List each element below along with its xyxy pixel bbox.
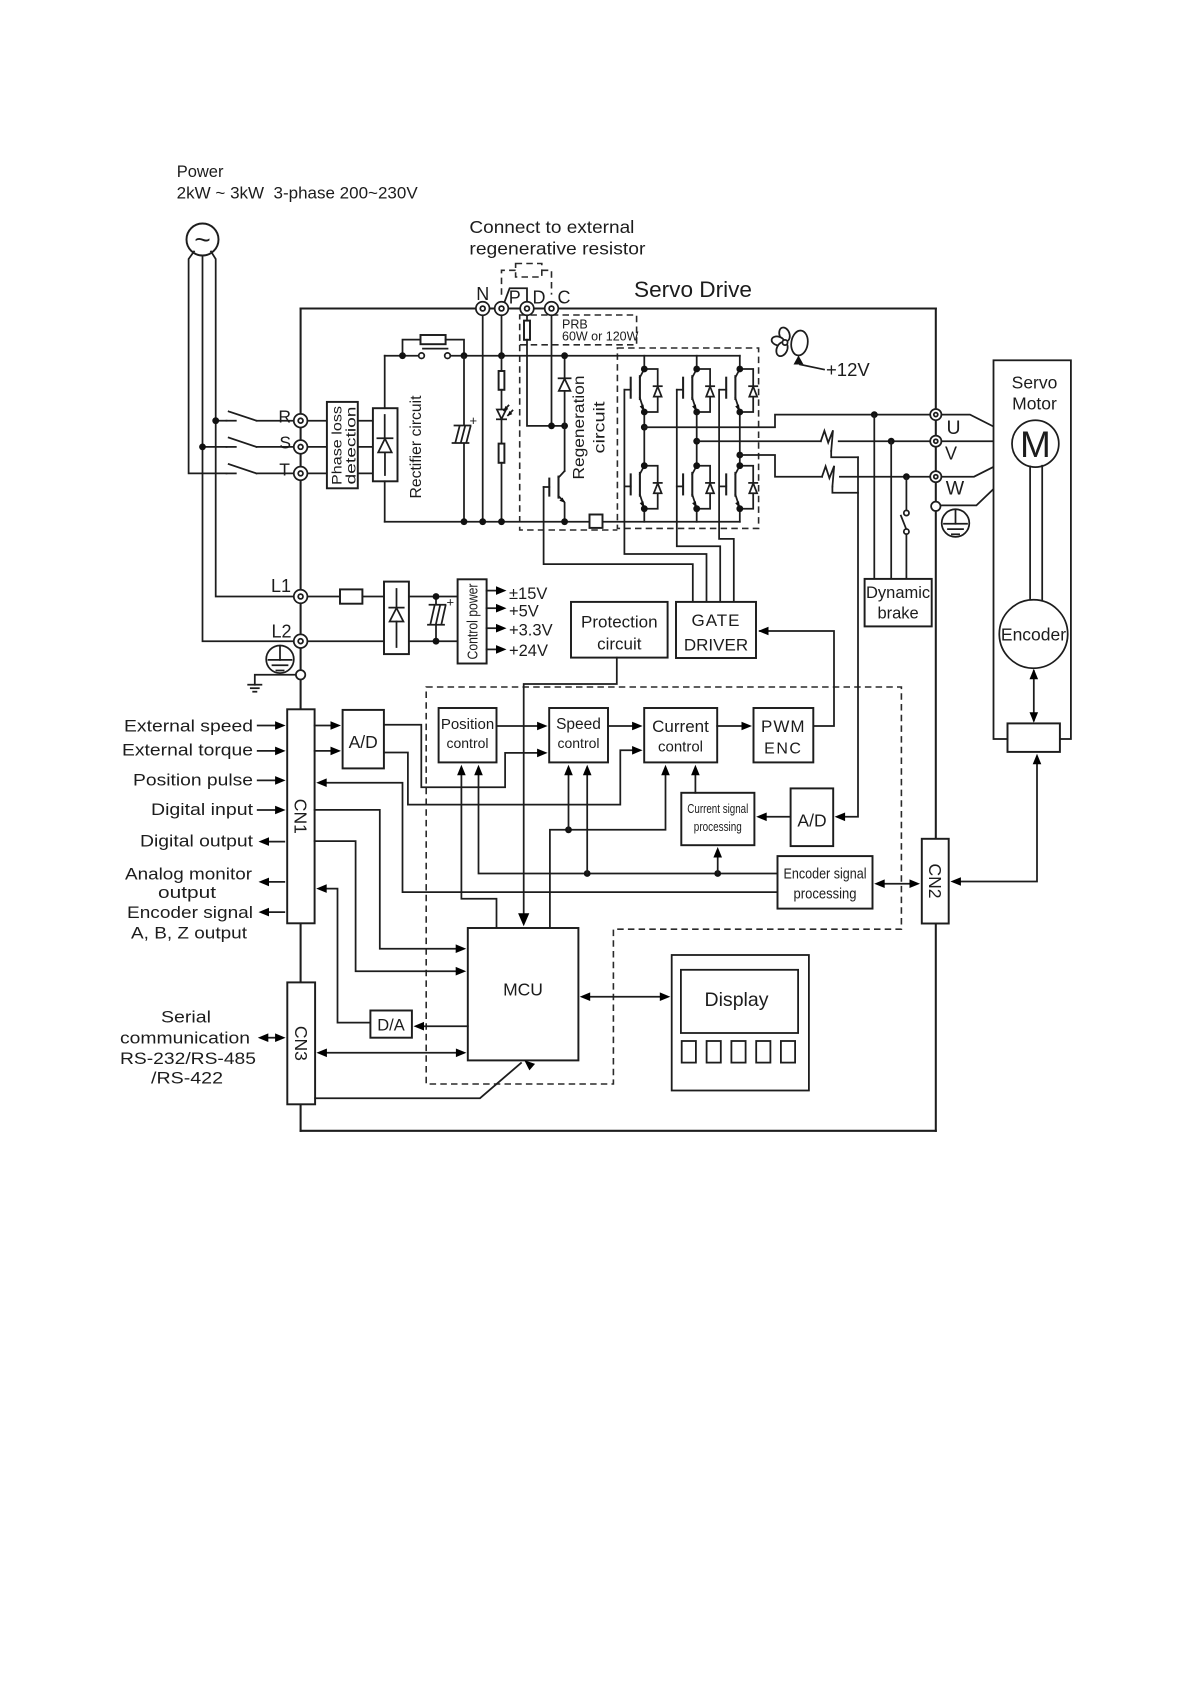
svg-text:PWM: PWM bbox=[761, 717, 806, 736]
regeneration circuit dashed border bbox=[520, 345, 618, 530]
svg-text:Power: Power bbox=[177, 163, 224, 181]
ground wire below L2 bbox=[255, 675, 296, 685]
svg-text:L2: L2 bbox=[271, 622, 291, 642]
serial double arrow bbox=[258, 1033, 286, 1042]
svg-text:control: control bbox=[446, 735, 488, 751]
wire U phase output bbox=[644, 415, 930, 428]
bridge junction dots bbox=[641, 366, 743, 513]
svg-text:Connect to external: Connect to external bbox=[469, 217, 634, 237]
sensor V tap bbox=[831, 451, 858, 457]
relay blade bbox=[423, 348, 448, 350]
wire T to phase loss detection bbox=[307, 472, 327, 474]
control power output arrows bbox=[487, 586, 507, 653]
svg-text:+24V: +24V bbox=[509, 642, 548, 660]
svg-text:Motor: Motor bbox=[1012, 394, 1057, 414]
charge LED chain resistor 1 bbox=[501, 356, 503, 371]
wire ESP to CN1 encoder A B Z bbox=[316, 778, 777, 892]
bridge column collector stubs bbox=[644, 356, 740, 369]
wire C drop bbox=[551, 315, 553, 426]
current signal processing box bbox=[681, 793, 754, 845]
svg-text:Current signal: Current signal bbox=[687, 801, 748, 816]
terminal D bbox=[520, 302, 534, 316]
wire rectifier top to bus bbox=[384, 356, 386, 409]
svg-text:output: output bbox=[158, 883, 216, 902]
wire W terminal to motor bbox=[941, 456, 1014, 477]
wire W to dynamic brake switch bbox=[905, 477, 907, 511]
MCU box bbox=[468, 928, 579, 1060]
svg-text:Digital input: Digital input bbox=[151, 800, 253, 819]
sensor line down to A/D bbox=[845, 457, 858, 817]
wire N drop bbox=[482, 315, 484, 521]
sensor W tap bbox=[832, 487, 858, 493]
IGBT Q5 lower V bbox=[677, 466, 697, 509]
CN1 labels bbox=[122, 717, 253, 943]
bridge emitter stubs to bus bbox=[644, 509, 740, 522]
svg-text:S: S bbox=[279, 433, 291, 453]
terminal R bbox=[294, 414, 308, 428]
svg-text:N: N bbox=[476, 284, 489, 304]
svg-text:DRIVER: DRIVER bbox=[684, 636, 748, 655]
terminal S bbox=[294, 440, 308, 454]
switch T bbox=[227, 464, 294, 473]
control diode bbox=[389, 589, 403, 647]
svg-text:+12V: +12V bbox=[826, 359, 870, 380]
node regen bus bottom bbox=[561, 518, 568, 525]
IGBT Q2 upper V bbox=[677, 369, 697, 412]
DC bus bottom with shunt square bbox=[385, 521, 590, 523]
svg-text:Protection: Protection bbox=[581, 613, 658, 632]
regen IGBT bbox=[544, 471, 566, 503]
node U dynamic brake bbox=[871, 411, 878, 418]
diode D6 bbox=[740, 466, 758, 509]
wire P drop bbox=[501, 315, 503, 355]
svg-text:D: D bbox=[533, 288, 546, 308]
display buttons bbox=[682, 1041, 795, 1063]
precharge resistor bypass bbox=[403, 335, 465, 356]
svg-text:M: M bbox=[1020, 424, 1051, 465]
IGBT Q3 upper W bbox=[720, 369, 740, 412]
svg-text:RS-232/RS-485: RS-232/RS-485 bbox=[120, 1049, 256, 1068]
node N bottom bbox=[479, 518, 486, 525]
wire A/D to current control bbox=[384, 746, 643, 805]
svg-text:Rectifier circuit: Rectifier circuit bbox=[408, 395, 425, 499]
serial communication labels bbox=[120, 1008, 256, 1088]
diode D4 bbox=[644, 466, 662, 509]
diode D3 bbox=[740, 369, 758, 412]
MCU display double arrow bbox=[580, 992, 671, 1001]
wire regen emitter to bus bbox=[564, 503, 566, 522]
svg-text:L1: L1 bbox=[271, 576, 291, 596]
gate feed wire column W bbox=[719, 390, 734, 602]
svg-text:CN2: CN2 bbox=[925, 863, 945, 898]
svg-text:Serial: Serial bbox=[161, 1008, 211, 1027]
node C junction bbox=[548, 423, 555, 430]
earth symbol bbox=[248, 685, 261, 692]
svg-text:D/A: D/A bbox=[377, 1017, 405, 1035]
regeneration circuit label bbox=[571, 376, 609, 480]
wire L2 to diode box bbox=[307, 640, 384, 642]
svg-text:External torque: External torque bbox=[122, 741, 253, 760]
svg-text:circuit: circuit bbox=[592, 401, 609, 454]
node W dynamic brake bbox=[903, 473, 910, 480]
svg-text:External speed: External speed bbox=[124, 717, 253, 736]
svg-text:processing: processing bbox=[794, 886, 857, 903]
svg-text:processing: processing bbox=[694, 819, 742, 834]
svg-text:P: P bbox=[509, 288, 521, 308]
svg-text:T: T bbox=[279, 460, 290, 480]
current sensor V bbox=[821, 430, 833, 451]
svg-text:Encoder: Encoder bbox=[1001, 625, 1066, 645]
node regen bus bbox=[561, 352, 568, 359]
A/D box 1 bbox=[343, 710, 384, 769]
servo motor box bbox=[994, 360, 1071, 739]
D/A box bbox=[370, 1011, 412, 1038]
wire current to PWM bbox=[717, 722, 752, 731]
svg-text:U: U bbox=[946, 417, 960, 439]
wires diode box to control power bbox=[409, 597, 458, 642]
node cap top bbox=[433, 593, 440, 600]
svg-text:W: W bbox=[946, 478, 965, 500]
speed control box bbox=[549, 708, 608, 762]
svg-text:R: R bbox=[278, 407, 291, 427]
svg-text:Servo: Servo bbox=[1012, 373, 1058, 393]
svg-text:brake: brake bbox=[877, 605, 918, 623]
external regenerative resistor dashed box bbox=[502, 264, 552, 296]
terminal labels L1 L2 bbox=[271, 576, 292, 642]
terminal V bbox=[930, 436, 941, 447]
ground open terminal bbox=[296, 670, 305, 679]
motor M circle bbox=[1012, 420, 1059, 467]
svg-text:regenerative resistor: regenerative resistor bbox=[469, 239, 645, 259]
current sensor W bbox=[822, 466, 834, 487]
CN1 connector box bbox=[287, 709, 314, 923]
node S feed bbox=[199, 444, 206, 451]
svg-text:Servo Drive: Servo Drive bbox=[634, 277, 752, 302]
IGBT Q6 lower W bbox=[720, 466, 740, 509]
switch R bbox=[227, 411, 294, 420]
DSP dashed region bbox=[426, 687, 901, 1084]
svg-text:Speed: Speed bbox=[556, 716, 601, 733]
svg-text:control: control bbox=[658, 739, 703, 756]
gate feed wire column U bbox=[624, 390, 706, 602]
diode D1 bbox=[644, 369, 662, 412]
PE symbol motor bbox=[942, 509, 970, 537]
gate feed wire regen bbox=[544, 487, 693, 602]
svg-text:C: C bbox=[558, 288, 571, 308]
control diode box bbox=[384, 582, 409, 655]
wire L1 to fuse bbox=[307, 596, 340, 598]
wire MCU to D/A bbox=[414, 1022, 468, 1031]
svg-text:/RS-422: /RS-422 bbox=[151, 1069, 223, 1088]
terminal T bbox=[294, 467, 308, 481]
svg-text:GATE: GATE bbox=[691, 611, 740, 630]
rectifier diode bbox=[377, 415, 392, 475]
wire source left to T switch bbox=[189, 252, 227, 474]
wire source mid to S and L2 bbox=[203, 256, 294, 642]
PRB dashed box bbox=[520, 315, 637, 345]
svg-text:ENC: ENC bbox=[764, 741, 802, 758]
svg-text:MCU: MCU bbox=[503, 980, 543, 1000]
svg-text:circuit: circuit bbox=[597, 635, 642, 654]
wire U terminal to motor bbox=[941, 415, 1013, 437]
wire R feed bbox=[216, 420, 227, 422]
svg-text:detection: detection bbox=[343, 407, 359, 485]
rectifier box bbox=[373, 408, 398, 481]
wire CN2 to encoder block bbox=[950, 754, 1041, 886]
display outer box bbox=[672, 955, 809, 1091]
wire V phase output bbox=[697, 440, 821, 442]
PE symbol L2 bbox=[266, 646, 294, 674]
svg-text:+5V: +5V bbox=[509, 603, 539, 621]
PWM ENC box bbox=[754, 708, 814, 762]
dynamic brake switch bbox=[901, 510, 909, 579]
A/D box 2 bbox=[791, 788, 834, 846]
IGBT bridge dashed box bbox=[617, 348, 758, 528]
svg-text:+: + bbox=[470, 413, 478, 428]
PRB labels bbox=[562, 318, 639, 344]
bus capacitor bbox=[453, 356, 478, 522]
wire R to phase loss detection bbox=[307, 420, 327, 422]
servo drive outer box bbox=[301, 309, 936, 1131]
encoder double arrow bbox=[1030, 669, 1039, 723]
wire V to dynamic brake bbox=[890, 441, 892, 579]
svg-text:V: V bbox=[945, 444, 957, 464]
encoder signal processing box bbox=[778, 856, 873, 909]
wire speed control right feedback arrow bbox=[583, 765, 592, 874]
fuse L1 bbox=[340, 589, 362, 603]
svg-text:Encoder signal: Encoder signal bbox=[784, 866, 867, 883]
wire V terminal to motor bbox=[941, 440, 1012, 442]
svg-text:Current: Current bbox=[652, 717, 709, 736]
wire rectifier bottom to bus bbox=[384, 481, 386, 521]
CN2 connector box bbox=[922, 839, 949, 924]
svg-text:Analog monitor: Analog monitor bbox=[125, 865, 252, 884]
phase loss detection box bbox=[327, 402, 359, 488]
wire CN1 digital input to MCU bbox=[315, 810, 467, 953]
wire CN3 to MCU diagonal bbox=[315, 1057, 535, 1098]
power source bbox=[187, 224, 219, 256]
svg-text:control: control bbox=[557, 735, 599, 751]
node cap bottom bbox=[461, 518, 468, 525]
CN3 connector box bbox=[287, 982, 315, 1104]
wires CN1 to A/D bbox=[315, 721, 341, 755]
svg-text:Encoder signal: Encoder signal bbox=[127, 903, 253, 922]
charge LED bbox=[497, 406, 513, 420]
wire MCU to speed and current control bbox=[550, 765, 670, 928]
display screen bbox=[681, 970, 798, 1033]
encoder connector block bbox=[1008, 723, 1060, 752]
wire phase loss to rectifier x3 bbox=[358, 421, 373, 474]
node bus precharge right bbox=[461, 352, 468, 359]
wire S feed bbox=[203, 446, 227, 448]
CN3 MCU double arrow bbox=[316, 1049, 466, 1058]
gate feed wire column V bbox=[677, 390, 720, 602]
terminal L1 bbox=[294, 590, 308, 604]
svg-text:2kW ~ 3kW 3-phase 200~230V: 2kW ~ 3kW 3-phase 200~230V bbox=[177, 185, 418, 203]
dynamic brake box bbox=[865, 579, 932, 627]
terminal labels U V W bbox=[945, 417, 965, 500]
title labels bbox=[177, 163, 752, 302]
current control box bbox=[644, 708, 717, 762]
wire feedback to CSP bottom bbox=[713, 847, 722, 874]
svg-text:+3.3V: +3.3V bbox=[509, 622, 553, 640]
gate driver box bbox=[676, 602, 756, 658]
wire position to speed bbox=[497, 722, 548, 731]
svg-text:communication: communication bbox=[120, 1029, 250, 1048]
DC bus top with relay contact gap bbox=[385, 355, 419, 357]
wire W phase output bbox=[740, 455, 822, 477]
node V dynamic brake bbox=[888, 438, 895, 445]
wire PWM to gate driver bbox=[758, 627, 834, 726]
motor ground terminal bbox=[931, 502, 940, 511]
control power box bbox=[458, 579, 487, 663]
wire ESP feedback to controls bbox=[474, 765, 777, 877]
diode D5 bbox=[697, 466, 715, 509]
bridge phase verticals bbox=[644, 412, 740, 466]
wire speed to current bbox=[608, 722, 643, 731]
position control box bbox=[439, 708, 497, 762]
terminal labels N P D C bbox=[476, 284, 570, 308]
wire source right to R and L1 bbox=[211, 252, 294, 597]
svg-text:CN3: CN3 bbox=[291, 1026, 311, 1061]
terminal C bbox=[545, 302, 559, 316]
node LED bottom bbox=[498, 518, 505, 525]
IGBT Q1 upper U bbox=[624, 369, 644, 412]
svg-text:±15V: ±15V bbox=[509, 585, 547, 603]
svg-text:Digital output: Digital output bbox=[140, 832, 253, 851]
terminal W bbox=[930, 471, 941, 482]
CN1 left arrows out bbox=[259, 837, 285, 916]
charge LED chain resistor 2 bbox=[501, 419, 503, 443]
terminal P bbox=[495, 302, 509, 316]
wire ESP to CN2 double arrow bbox=[874, 879, 920, 888]
node bus precharge left bbox=[399, 352, 406, 359]
svg-text:~: ~ bbox=[194, 224, 210, 255]
terminal U bbox=[930, 409, 941, 420]
wire S to phase loss detection bbox=[307, 446, 327, 448]
svg-text:A/D: A/D bbox=[797, 811, 826, 831]
svg-text:Position pulse: Position pulse bbox=[133, 771, 253, 790]
encoder circle bbox=[999, 600, 1067, 668]
terminal N bbox=[476, 302, 490, 316]
wire D/A to CN1 analog monitor bbox=[316, 884, 370, 1022]
svg-text:CN1: CN1 bbox=[291, 799, 311, 834]
svg-text:A, B, Z output: A, B, Z output bbox=[131, 924, 247, 943]
wires motor to encoder bbox=[1030, 466, 1042, 601]
protection circuit box bbox=[571, 602, 668, 658]
IGBT Q4 lower U bbox=[624, 466, 644, 509]
terminal labels R S T bbox=[278, 407, 291, 480]
switch S bbox=[227, 438, 294, 447]
control power capacitor bbox=[428, 595, 454, 642]
cooling fan bbox=[771, 326, 824, 369]
svg-text:Control power: Control power bbox=[466, 583, 482, 659]
arrow into A/D right bbox=[835, 813, 846, 822]
relay contact circles bbox=[419, 353, 425, 359]
wire U to dynamic brake bbox=[873, 415, 875, 579]
svg-text:60W or 120W: 60W or 120W bbox=[562, 330, 639, 344]
diode D2 bbox=[697, 369, 715, 412]
node P bus bbox=[498, 352, 505, 359]
svg-text:A/D: A/D bbox=[349, 732, 378, 752]
svg-text:Dynamic: Dynamic bbox=[866, 584, 930, 602]
svg-text:Regeneration: Regeneration bbox=[571, 376, 588, 480]
wire speed control left bottom arrow bbox=[564, 765, 573, 830]
terminal L2 bbox=[294, 634, 308, 648]
wire A/D to speed control bbox=[384, 725, 548, 788]
wire regen mid to IGBT bbox=[564, 426, 566, 471]
wire A/D2 to CSP bbox=[756, 813, 790, 822]
svg-text:+: + bbox=[447, 595, 455, 610]
regen diode bbox=[559, 356, 571, 426]
svg-text:Position: Position bbox=[441, 716, 494, 733]
svg-text:Display: Display bbox=[705, 989, 769, 1011]
CN1 left arrows in bbox=[258, 721, 286, 814]
wire CN1 digital output to MCU bbox=[315, 841, 467, 975]
wire CSP to current control bbox=[691, 765, 700, 793]
node regen mid junction bbox=[561, 423, 568, 430]
regen resistor PRB on D line bbox=[526, 315, 528, 320]
wire MCU to position control bbox=[457, 765, 496, 928]
wire protection to MCU bbox=[518, 658, 617, 927]
P-D jumper bbox=[504, 288, 527, 302]
wire ground terminal to motor bbox=[941, 462, 1022, 505]
node R feed bbox=[212, 417, 219, 424]
node cap bottom bbox=[433, 638, 440, 645]
